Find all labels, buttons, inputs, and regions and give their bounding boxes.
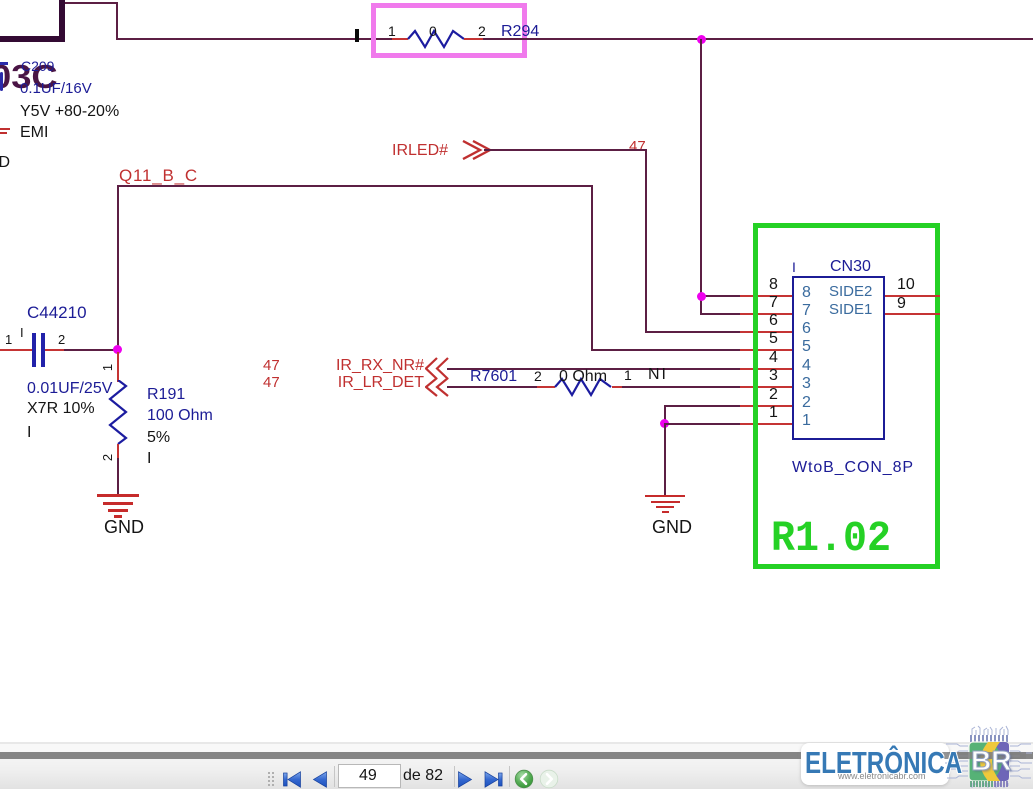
red fragment marks left of EMI	[0, 128, 10, 130]
page number input box	[338, 764, 401, 788]
logo url www.eletronicabr.com	[838, 772, 926, 781]
inner pin number 8	[802, 285, 811, 301]
label EMI	[20, 125, 48, 141]
label ID (cut off)	[0, 155, 10, 171]
pin4 red stub	[740, 368, 792, 370]
junction node (magenta dot) at top net	[697, 35, 706, 44]
inner pin number 3	[802, 376, 811, 392]
inner pin number 5	[802, 339, 811, 355]
type tick I of CN30	[792, 260, 796, 274]
pin number 1 of R191 (rotated)	[101, 361, 114, 374]
gray divider band	[0, 752, 1033, 759]
wire: pin7 row horizontal	[700, 313, 740, 315]
resistor R191 zigzag	[107, 380, 129, 448]
forward (history) button, disabled	[539, 769, 559, 789]
separator	[334, 766, 335, 787]
label NI	[648, 367, 668, 383]
page ref label 47 (IR_LR_DET)	[263, 375, 280, 390]
outer pin number 10	[897, 277, 915, 293]
outer pin number 8	[769, 277, 778, 293]
inner pin number 4	[802, 358, 811, 374]
wire: pin2 row horizontal	[664, 405, 740, 407]
type label I	[27, 425, 31, 441]
logo text BR	[971, 747, 1011, 775]
wire: horizontal run to R294 pin1	[116, 38, 392, 40]
separator	[509, 766, 510, 787]
junction node (magenta dot) at C44210/R191	[113, 345, 122, 354]
ground symbol (right)	[645, 495, 685, 497]
wire: pin2 to pin1 vertical	[664, 405, 666, 424]
wire: R294 pin2 to right edge	[483, 38, 1033, 40]
tolerance label X7R 10%	[27, 401, 95, 417]
inner pin number 6	[802, 321, 811, 337]
wire: R7601 to pin3	[622, 386, 740, 388]
last page button	[482, 771, 503, 788]
wire: bus to step (net of R294)	[65, 2, 118, 4]
type tick I of C44210	[20, 326, 24, 339]
wire: IR_LR_DET to R7601	[447, 386, 537, 388]
resistor R191 lead 1 (red)	[117, 352, 119, 382]
gray band over chip	[942, 752, 1026, 759]
pin number 2 of R191 (rotated)	[101, 451, 114, 464]
pin3 red stub	[740, 386, 792, 388]
inner pin name SIDE1	[829, 302, 872, 317]
TOOLBAR AREA	[0, 742, 1033, 789]
light strip	[0, 744, 1033, 752]
reference label R294	[501, 24, 539, 40]
reference label R7601	[470, 369, 517, 385]
outer pin number 4	[769, 350, 778, 366]
first page button	[283, 771, 303, 788]
wire: pin1 row horizontal	[664, 423, 740, 425]
capacitor C44210 reference label	[27, 304, 87, 321]
net label IR_RX_NR#	[324, 358, 424, 374]
capacitor C44210 lead 2 (red)	[45, 349, 64, 351]
tolerance label Y5V +80-20%	[20, 104, 119, 120]
net label Q11_B_C	[119, 167, 198, 184]
inner pin number 2	[802, 395, 811, 411]
outer pin number 9	[897, 296, 906, 312]
junction node (magenta dot) pin1	[660, 419, 669, 428]
inner pin name SIDE2	[829, 284, 872, 299]
pin7 red stub	[740, 313, 792, 315]
watermark logo background	[801, 743, 949, 785]
back (history) button	[514, 769, 534, 789]
value label 100 Ohm	[147, 408, 213, 424]
wire: down to ground	[664, 423, 666, 496]
big part label 03C (cut off at left)	[0, 60, 58, 93]
value label 0 Ohm	[559, 369, 607, 385]
inner pin number 7	[802, 303, 811, 319]
wire: Q11_B_C left vertical down to C44210 node	[117, 185, 119, 351]
wire: C44210 to junction	[64, 349, 118, 351]
previous page button	[311, 771, 329, 788]
value label 0 of R294	[429, 24, 437, 38]
pin9 red stub (right)	[885, 313, 940, 315]
wire: IRLED# horizontal	[484, 149, 647, 151]
logo text ELETRÔNICA	[805, 747, 962, 778]
wire: vertical drop x=701 to CN30 pin8	[700, 39, 702, 315]
wire: CN30 pin8 row from junction	[700, 295, 740, 297]
pin number 1 of R7601	[624, 368, 632, 382]
net label IRLED#	[392, 143, 448, 159]
value label 0.01UF/25V	[27, 381, 112, 397]
blue fragment at left edge	[0, 62, 8, 65]
pin number 2 of R294	[478, 24, 486, 38]
tolerance label 5%	[147, 430, 170, 446]
revision highlight box (green)	[753, 223, 940, 569]
page ref label 47 (IRLED#)	[629, 139, 646, 154]
junction node (magenta dot) pin8	[697, 292, 706, 301]
value label 0.1UF/16V	[20, 81, 92, 96]
wire: IRLED# vertical down to pin6 row	[645, 149, 647, 333]
page count label de 82	[403, 768, 443, 784]
resistor R7601 zigzag	[554, 377, 614, 399]
inner pin number 1	[802, 413, 811, 429]
wire: IR_RX_NR# to pin4	[447, 368, 740, 370]
pin6 red stub	[740, 331, 792, 333]
wire: Q11_B_C right vertical down to pin5 row	[591, 185, 593, 351]
logo chip graphic	[942, 725, 1033, 789]
next page button	[456, 771, 474, 788]
wire: pin6 row horizontal	[645, 331, 740, 333]
toolbar body	[0, 759, 1033, 789]
page edge line	[0, 742, 1033, 744]
resistor R294 lead 2 (red)	[464, 38, 483, 40]
resistor R7601 lead 1 (red)	[612, 386, 622, 388]
resistor R294 zigzag	[407, 28, 467, 50]
net label IR_LR_DET	[324, 375, 424, 391]
outer pin number 1	[769, 405, 778, 421]
type label I	[147, 451, 151, 467]
part label WtoB_CON_8P	[792, 460, 914, 476]
pin number 2 of R7601	[534, 369, 542, 383]
pin number 2 of C44210	[58, 333, 65, 346]
resistor R294 lead 1 (red)	[392, 38, 408, 40]
ground symbol (left)	[97, 494, 139, 497]
wire: R191 to ground	[117, 458, 119, 495]
pin number 1 of C44210	[5, 333, 12, 346]
wire: left edge to C44210 pin1 (red)	[0, 349, 32, 351]
grip handle	[268, 772, 276, 786]
ground label GND (right)	[652, 518, 692, 536]
outer pin number 5	[769, 331, 778, 347]
capacitor C44210 plates	[32, 333, 36, 367]
off-page connector chevrons (IR_RX_NR# / IR_LR_DET)	[425, 357, 449, 401]
page ref label 47 (IR_RX_NR#)	[263, 358, 280, 373]
highlight box (pink) around R294	[371, 3, 527, 58]
outer pin number 3	[769, 368, 778, 384]
revision label R1.02	[771, 517, 891, 560]
outer pin number 6	[769, 313, 778, 329]
off-page connector chevrons (IRLED#)	[462, 140, 492, 160]
resistor R191 lead 2 (red)	[117, 444, 119, 460]
reference label R191	[147, 387, 185, 403]
blue glyph fragment at left edge	[0, 72, 3, 91]
pin2 red stub	[740, 405, 792, 407]
ground label GND (left)	[104, 518, 144, 536]
page number 49	[359, 768, 377, 784]
connector CN30 body	[792, 276, 885, 440]
pin1 red stub	[740, 423, 792, 425]
wire: pin5 row horizontal	[591, 349, 740, 351]
bus segment (thick, top-left)	[0, 36, 65, 42]
outer pin number 7	[769, 295, 778, 311]
tick marker on wire	[355, 29, 359, 42]
wire: Q11_B_C horizontal	[117, 185, 593, 187]
pin number 1 of R294	[388, 24, 396, 38]
pin10 red stub (right)	[885, 295, 940, 297]
outer pin number 2	[769, 387, 778, 403]
pin8 red stub	[740, 295, 792, 297]
reference label C209	[21, 59, 54, 73]
separator	[454, 766, 455, 787]
pin5 red stub	[740, 349, 792, 351]
reference label CN30	[830, 259, 871, 275]
resistor R7601 lead 2 (red)	[537, 386, 555, 388]
wire: vertical step at x=117	[116, 2, 118, 39]
